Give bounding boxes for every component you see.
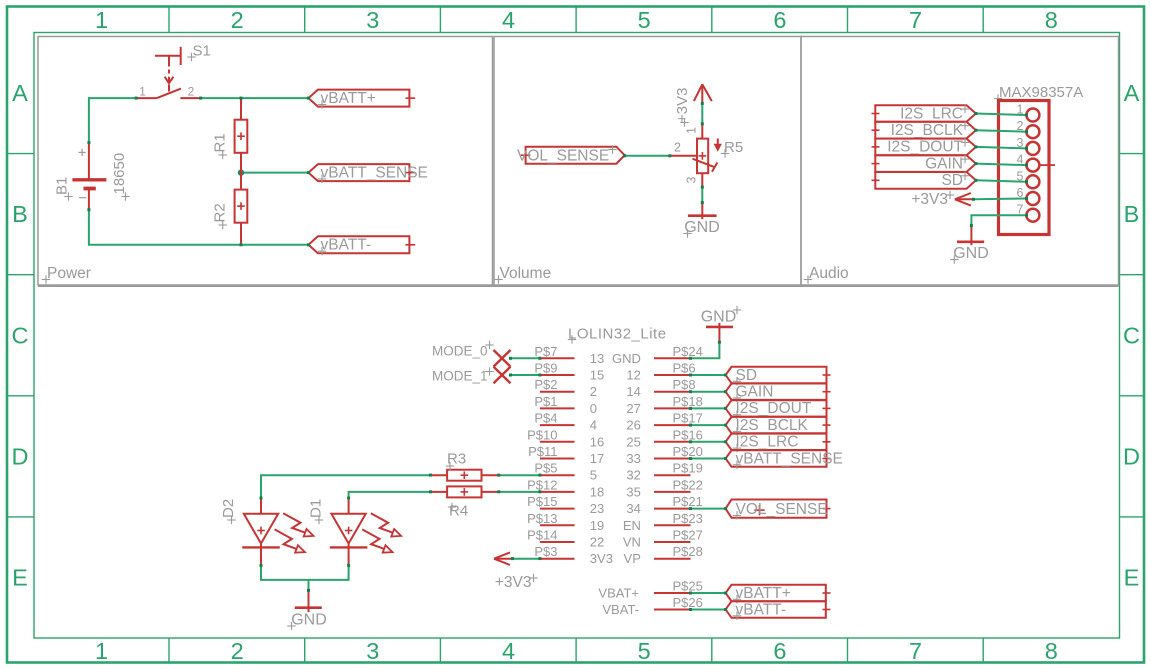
label GND (audio) (950, 245, 989, 264)
svg-text:vBATT_SENSE: vBATT_SENSE (736, 450, 843, 467)
supply +3V3 (main) (494, 552, 513, 565)
wire P$24 to GND (691, 342, 720, 358)
svg-text:P$15: P$15 (527, 494, 557, 509)
net name vBATT_SENSE (318, 165, 428, 184)
section box Audio (801, 37, 1119, 286)
svg-text:vBATT+: vBATT+ (736, 585, 791, 602)
svg-text:34: 34 (626, 501, 640, 516)
label R3 (446, 451, 466, 471)
svg-text:P$28: P$28 (673, 544, 703, 559)
LED D2 (242, 498, 313, 565)
net name SD (main) (733, 367, 757, 386)
pad 7 (MAX98357A) (1017, 203, 1040, 222)
svg-text:LOLIN32_Lite: LOLIN32_Lite (568, 326, 667, 343)
flag I2S_DOUT (audio) (872, 139, 976, 156)
svg-text:D1: D1 (308, 499, 325, 518)
wire P pin to flag I2S_LRC (691, 441, 726, 443)
svg-text:3V3: 3V3 (590, 551, 613, 566)
pin P$1 (left, LOLIN32) (534, 394, 597, 416)
module label LOLIN32_Lite (568, 326, 667, 344)
switch S1 (136, 47, 200, 98)
svg-text:13: 13 (590, 351, 604, 366)
svg-text:16: 16 (590, 434, 604, 449)
svg-text:32: 32 (626, 468, 640, 483)
flag I2S_LRC (audio) (872, 105, 976, 122)
svg-text:Volume: Volume (500, 265, 552, 282)
pad 5 (MAX98357A) (1017, 169, 1040, 188)
wire P$26 to vBATT- (691, 609, 726, 611)
no-connect X (MODE_0) (494, 350, 511, 367)
flag vBATT+ (main) (726, 585, 831, 601)
label MAX98357A (994, 84, 1083, 103)
wire pad 7 to GND (audio) (971, 215, 1027, 225)
svg-text:14: 14 (626, 384, 640, 399)
svg-text:P$26: P$26 (673, 595, 703, 610)
flag vBATT_SENSE (309, 164, 416, 181)
section label Power (42, 265, 91, 284)
svg-text:18: 18 (590, 484, 604, 499)
label R2 (212, 203, 229, 229)
wire flag GAIN to pad 4 (976, 164, 1027, 166)
svg-text:12: 12 (626, 368, 640, 383)
pin P$6 (right, LOLIN32) (626, 361, 695, 383)
flag vBATT+ (309, 90, 416, 107)
wire P pin to flag SD (691, 374, 726, 376)
net name vBATT+ (main) (733, 585, 791, 604)
pin P$17 (right, LOLIN32) (626, 411, 702, 433)
svg-text:vBATT-: vBATT- (736, 601, 787, 618)
pin P$5 (left, LOLIN32) (534, 461, 597, 483)
wire switch to vBATT+ flag (201, 97, 309, 99)
net name I2S_LRC (main) (733, 434, 799, 453)
svg-text:33: 33 (626, 451, 640, 466)
svg-text:1: 1 (95, 7, 108, 33)
svg-text:8: 8 (1045, 7, 1058, 33)
R5 adjust arrow (714, 139, 722, 152)
svg-text:P$27: P$27 (673, 528, 703, 543)
svg-text:VP: VP (624, 551, 641, 566)
pin P$4 (left, LOLIN32) (534, 411, 597, 433)
svg-text:3: 3 (366, 7, 379, 33)
svg-text:C: C (1123, 322, 1140, 348)
svg-text:P$11: P$11 (528, 444, 557, 459)
svg-text:I2S_BCLK: I2S_BCLK (891, 122, 964, 139)
svg-text:vBATT-: vBATT- (321, 237, 372, 254)
svg-text:5: 5 (638, 638, 651, 664)
section box Power (38, 37, 493, 286)
pin number 1 (R5) (685, 127, 699, 134)
svg-text:MODE_0: MODE_0 (432, 344, 488, 359)
svg-text:P$19: P$19 (673, 461, 703, 476)
flag GAIN (audio) (872, 155, 976, 172)
svg-text:1: 1 (95, 638, 108, 664)
svg-text:P$2: P$2 (534, 377, 557, 392)
pin P$26 (right, LOLIN32) (602, 595, 702, 617)
flag vBATT_SENSE (main) (726, 450, 831, 466)
label R5 (721, 139, 743, 158)
svg-text:R2: R2 (212, 203, 229, 222)
label B1 (54, 177, 73, 201)
svg-text:VOL_SENSE: VOL_SENSE (517, 147, 609, 164)
svg-text:26: 26 (626, 418, 640, 433)
svg-text:GND: GND (612, 351, 641, 366)
wire R4 to P$12 (499, 491, 540, 493)
svg-text:vBATT_SENSE: vBATT_SENSE (321, 165, 428, 182)
svg-text:7: 7 (909, 7, 922, 33)
net name I2S_DOUT (audio) (887, 138, 969, 156)
svg-text:2: 2 (231, 7, 244, 33)
pin P$12 (left, LOLIN32) (527, 477, 604, 499)
net name vBATT_SENSE (main) (733, 450, 843, 469)
wire to VOL_SENSE flag (625, 155, 670, 157)
wire MODE_1 (511, 374, 540, 376)
svg-text:2: 2 (231, 638, 244, 664)
svg-text:6: 6 (773, 7, 786, 33)
svg-text:P$1: P$1 (534, 394, 557, 409)
svg-text:17: 17 (590, 451, 604, 466)
flag vBATT- (309, 236, 416, 253)
svg-text:P$5: P$5 (534, 461, 557, 476)
svg-text:P$17: P$17 (673, 411, 703, 426)
pad 1 (MAX98357A) (1017, 103, 1040, 122)
pad 2 (MAX98357A) (1017, 119, 1040, 138)
flag GAIN (main) (726, 384, 831, 400)
connector MAX98357A body (999, 101, 1050, 235)
label MODE_0 (432, 341, 494, 359)
flag VOL_SENSE (main) (726, 500, 831, 518)
wire P$25 to vBATT+ (691, 592, 726, 594)
section box Volume (494, 37, 801, 286)
svg-text:EN: EN (623, 518, 641, 533)
pin P$25 (right, LOLIN32) (598, 579, 702, 601)
flag I2S_BCLK (audio) (872, 122, 976, 139)
svg-text:2: 2 (188, 85, 195, 99)
svg-text:SD: SD (941, 172, 963, 189)
flag VOL_SENSE (volume) (521, 147, 625, 164)
svg-text:P$18: P$18 (673, 394, 703, 409)
svg-text:MAX98357A: MAX98357A (999, 84, 1083, 101)
pad 3 (MAX98357A) (1017, 136, 1040, 155)
pin P$11 (left, LOLIN32) (528, 444, 604, 466)
svg-text:P$6: P$6 (673, 361, 696, 376)
pin P$28 (right, LOLIN32) (624, 544, 703, 566)
wire flag I2S_DOUT to pad 3 (976, 147, 1027, 149)
no-connect X (MODE_1) (494, 367, 511, 384)
wire +3V3 to P$3 (513, 558, 540, 560)
net name vBATT- (main) (733, 601, 786, 620)
svg-text:P$8: P$8 (673, 377, 696, 392)
svg-text:5: 5 (590, 468, 597, 483)
label D1 (308, 499, 325, 524)
switch pin number 1 (139, 85, 146, 99)
pin number 2 (R5) (674, 141, 681, 155)
resistor R3 (431, 470, 499, 481)
svg-text:E: E (12, 565, 28, 591)
net name vBATT+ (318, 90, 376, 109)
svg-text:5: 5 (638, 7, 651, 33)
pin P$14 (left, LOLIN32) (527, 528, 604, 550)
wire flag I2S_BCLK to pad 2 (976, 130, 1027, 132)
pin P$15 (left, LOLIN32) (527, 494, 604, 516)
label R1 (212, 133, 229, 159)
pin P$22 (right, LOLIN32) (626, 477, 702, 499)
frame column dividers (169, 7, 983, 662)
wire battery bottom (89, 210, 309, 245)
ground GND (audio) (957, 226, 984, 246)
resistor R4 (431, 486, 499, 497)
label GND (main top) (701, 306, 741, 326)
wire P pin to flag I2S_DOUT (691, 407, 726, 409)
svg-text:P$20: P$20 (673, 444, 703, 459)
svg-text:Audio: Audio (809, 265, 849, 282)
svg-text:P$3: P$3 (534, 544, 557, 559)
svg-text:P$22: P$22 (673, 477, 703, 492)
label GND (LED) (287, 612, 326, 631)
section label Audio (804, 265, 849, 284)
pin P$23 (right, LOLIN32) (623, 511, 703, 533)
value 18650 (111, 153, 130, 201)
svg-text:I2S_BCLK: I2S_BCLK (736, 417, 809, 434)
svg-text:27: 27 (626, 401, 640, 416)
svg-text:C: C (12, 322, 29, 348)
label +3V3 (audio) (911, 191, 954, 208)
flag I2S_LRC (main) (726, 434, 831, 450)
pin P$8 (right, LOLIN32) (626, 377, 695, 399)
pin P$16 (right, LOLIN32) (626, 427, 702, 449)
svg-text:7: 7 (909, 638, 922, 664)
svg-text:P$13: P$13 (527, 511, 557, 526)
pad 6 (MAX98357A) (1017, 186, 1040, 205)
ground GND (volume) (688, 203, 717, 220)
pin P$18 (right, LOLIN32) (626, 394, 702, 416)
svg-text:D: D (1123, 443, 1140, 469)
pin P$19 (right, LOLIN32) (626, 461, 702, 483)
pin P$10 (left, LOLIN32) (527, 427, 604, 449)
svg-text:E: E (1124, 565, 1140, 591)
svg-text:4: 4 (502, 7, 515, 33)
svg-text:GND: GND (291, 612, 327, 629)
svg-text:B1: B1 (54, 177, 71, 195)
svg-text:D: D (12, 443, 29, 469)
svg-text:22: 22 (590, 535, 604, 550)
battery B1 (72, 143, 106, 210)
wire P$21 to VOL_SENSE (691, 508, 726, 510)
svg-text:B: B (1124, 201, 1140, 227)
svg-text:P$25: P$25 (673, 579, 703, 594)
section box main (top edge) (38, 285, 1119, 287)
ground GND (LED) (295, 590, 322, 612)
battery minus mark (79, 197, 86, 199)
net name GAIN (main) (733, 384, 774, 403)
svg-text:VBAT-: VBAT- (602, 602, 639, 617)
frame row dividers (7, 154, 1144, 517)
svg-text:I2S_LRC: I2S_LRC (736, 434, 799, 451)
LED D1 (330, 498, 401, 565)
wire D1 to R4 (349, 492, 431, 498)
section label Volume (494, 265, 551, 284)
flag I2S_BCLK (main) (726, 417, 831, 433)
svg-text:I2S_DOUT: I2S_DOUT (887, 139, 963, 156)
supply +3V3 (volume) (694, 84, 712, 103)
pin P$20 (right, LOLIN32) (626, 444, 702, 466)
flag vBATT- (main) (726, 601, 831, 618)
resistor R1 (235, 98, 248, 173)
pin P$3 (left, LOLIN32) (534, 544, 613, 566)
svg-text:+3V3: +3V3 (911, 191, 948, 208)
svg-text:1: 1 (139, 85, 146, 99)
battery plus mark (79, 149, 86, 156)
flag I2S_DOUT (main) (726, 400, 831, 416)
svg-text:19: 19 (590, 518, 604, 533)
wire R5 wiper (670, 155, 697, 157)
wire +3V3 to pad 6 (974, 198, 1028, 201)
frame row letters (12, 80, 1141, 591)
wire LED cathodes to GND (261, 565, 349, 590)
svg-text:P$14: P$14 (527, 528, 557, 543)
wire P pin to flag GAIN (691, 391, 726, 393)
svg-text:3: 3 (685, 177, 699, 184)
svg-text:P$21: P$21 (673, 494, 703, 509)
svg-text:P$10: P$10 (527, 427, 557, 442)
wire P pin to flag I2S_BCLK (691, 424, 726, 426)
label +3V3 (main) (495, 574, 538, 591)
pad 4 stub (1040, 164, 1056, 166)
svg-text:GND: GND (953, 245, 989, 262)
svg-text:VBAT+: VBAT+ (598, 586, 639, 601)
svg-text:GAIN: GAIN (925, 155, 963, 172)
resistor R2 (235, 173, 248, 245)
net name I2S_BCLK (audio) (891, 122, 970, 140)
pin number 3 (R5) (685, 177, 699, 184)
pin P$2 (left, LOLIN32) (534, 377, 597, 399)
svg-text:P$9: P$9 (534, 361, 557, 376)
svg-text:I2S_LRC: I2S_LRC (900, 105, 963, 122)
svg-text:6: 6 (773, 638, 786, 664)
net name I2S_DOUT (main) (733, 400, 812, 419)
net name VOL_SENSE (main) (733, 501, 828, 520)
pin P$24 (right, LOLIN32) (612, 344, 703, 366)
svg-text:25: 25 (626, 434, 640, 449)
pin P$27 (right, LOLIN32) (623, 528, 703, 550)
wire MODE_0 (511, 357, 540, 359)
svg-text:P$23: P$23 (673, 511, 703, 526)
pin P$7 (left, LOLIN32) (534, 344, 604, 366)
pin P$9 (left, LOLIN32) (534, 361, 604, 383)
svg-text:23: 23 (590, 501, 604, 516)
svg-text:A: A (12, 80, 28, 106)
net name I2S_BCLK (main) (733, 417, 809, 436)
svg-text:GND: GND (701, 309, 737, 326)
svg-text:P$16: P$16 (673, 427, 703, 442)
label MODE_1 (432, 367, 494, 383)
svg-text:R1: R1 (212, 133, 229, 152)
svg-text:VN: VN (623, 535, 641, 550)
wire R3 to P$5 (499, 474, 540, 476)
wire R5 to GND (701, 187, 703, 203)
node junction (238, 169, 244, 175)
wire battery top to switch (89, 98, 136, 143)
pin P$13 (left, LOLIN32) (527, 511, 604, 533)
svg-text:I2S_DOUT: I2S_DOUT (736, 400, 812, 417)
svg-text:P$24: P$24 (673, 344, 703, 359)
net name I2S_LRC (audio) (900, 105, 969, 123)
net name SD (audio) (941, 172, 969, 190)
svg-text:vBATT+: vBATT+ (321, 90, 376, 107)
net name vBATT- (318, 237, 371, 256)
svg-text:0: 0 (590, 401, 597, 416)
svg-text:+3V3: +3V3 (674, 88, 691, 123)
label +3V3 (volume) (674, 88, 691, 127)
label D2 (220, 499, 237, 524)
flag SD (main) (726, 367, 831, 383)
flag SD (audio) (872, 172, 976, 189)
potentiometer R5 (693, 124, 718, 187)
svg-text:3: 3 (366, 638, 379, 664)
label R4 (448, 503, 468, 520)
svg-text:VOL_SENSE: VOL_SENSE (736, 501, 828, 518)
label S1 (187, 43, 211, 62)
ground GND (main top) (706, 323, 733, 342)
svg-text:Power: Power (47, 265, 91, 282)
svg-text:B: B (12, 201, 28, 227)
wire node to vBATT_SENSE (241, 172, 309, 174)
net name GAIN (audio) (925, 155, 969, 173)
svg-text:1: 1 (685, 127, 699, 134)
svg-text:15: 15 (590, 368, 604, 383)
supply +3V3 (audio) (955, 193, 974, 206)
pad 4 (MAX98357A) (1017, 153, 1040, 172)
svg-text:2: 2 (674, 141, 681, 155)
svg-text:D2: D2 (220, 499, 237, 518)
wire P pin to flag vBATT_SENSE (691, 458, 726, 460)
svg-text:A: A (1124, 80, 1140, 106)
wire D2 to R3 (261, 475, 431, 498)
svg-text:8: 8 (1045, 638, 1058, 664)
svg-text:18650: 18650 (111, 153, 128, 195)
net name VOL_SENSE (volume) (517, 145, 617, 164)
pin P$21 (right, LOLIN32) (626, 494, 702, 516)
wire flag I2S_LRC to pad 1 (976, 114, 1027, 116)
svg-text:MODE_1: MODE_1 (432, 369, 488, 384)
wire endpoint dots (87, 97, 1028, 611)
svg-text:P$12: P$12 (527, 477, 557, 492)
svg-text:P$7: P$7 (534, 344, 557, 359)
svg-text:35: 35 (626, 484, 640, 499)
wire +3V3 to R5 (701, 103, 703, 123)
svg-text:4: 4 (502, 638, 515, 664)
svg-text:2: 2 (590, 384, 597, 399)
svg-text:+3V3: +3V3 (495, 574, 532, 591)
wire flag SD to pad 5 (976, 180, 1027, 182)
svg-text:P$4: P$4 (534, 411, 557, 426)
switch pin number 2 (188, 85, 195, 99)
svg-text:4: 4 (590, 418, 597, 433)
label GND (volume) (683, 219, 719, 238)
